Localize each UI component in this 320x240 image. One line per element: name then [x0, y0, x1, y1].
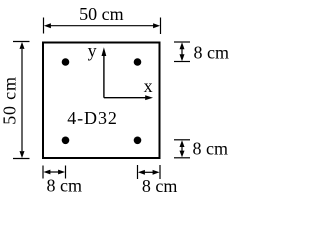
- rebar top-right: [134, 58, 142, 66]
- left dimension 50 cm: [13, 42, 30, 159]
- bottom left dimension 8 cm: [43, 166, 66, 179]
- right bottom dimension 8 cm: [174, 140, 190, 158]
- rebar bottom-right: [134, 137, 142, 145]
- svg-text:8 cm: 8 cm: [47, 175, 83, 195]
- svg-text:8 cm: 8 cm: [142, 176, 178, 196]
- rebar bottom-left: [62, 137, 70, 145]
- y axis: [102, 47, 107, 97]
- svg-text:50 cm: 50 cm: [79, 4, 124, 24]
- svg-text:50 cm: 50 cm: [0, 76, 20, 125]
- svg-text:y: y: [88, 41, 97, 61]
- svg-text:8 cm: 8 cm: [193, 139, 229, 159]
- x axis: [104, 95, 153, 100]
- top dimension 50 cm: [44, 18, 161, 35]
- right top dimension 8 cm: [174, 42, 190, 62]
- bottom right dimension 8 cm: [138, 165, 161, 179]
- column outline (50x50 cm section): [43, 43, 160, 159]
- svg-text:4-D32: 4-D32: [67, 108, 118, 128]
- rebar top-left: [62, 58, 70, 66]
- svg-text:x: x: [144, 76, 153, 96]
- svg-text:8 cm: 8 cm: [194, 42, 230, 62]
